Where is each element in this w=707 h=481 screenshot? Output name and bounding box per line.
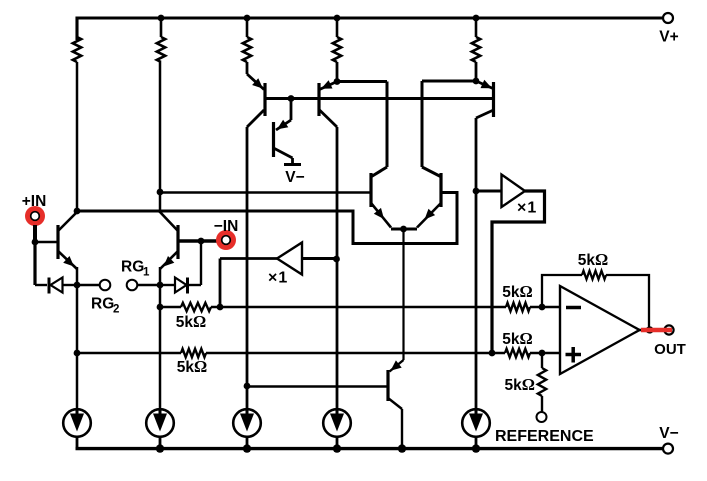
svg-text:2: 2 — [113, 304, 119, 316]
svg-text:×1: ×1 — [517, 200, 537, 217]
svg-text:OUT: OUT — [654, 341, 686, 358]
svg-text:V−: V− — [659, 425, 678, 442]
svg-text:V+: V+ — [659, 29, 678, 46]
svg-text:1: 1 — [143, 267, 150, 279]
svg-text:RG: RG — [91, 296, 114, 313]
svg-text:5kΩ: 5kΩ — [502, 282, 532, 301]
svg-text:5kΩ: 5kΩ — [177, 357, 207, 376]
svg-text:5kΩ: 5kΩ — [502, 329, 532, 348]
svg-text:5kΩ: 5kΩ — [505, 375, 535, 394]
svg-text:RG: RG — [121, 259, 144, 276]
svg-text:5kΩ: 5kΩ — [578, 250, 608, 269]
svg-text:−IN: −IN — [214, 218, 239, 235]
svg-text:×1: ×1 — [268, 270, 288, 287]
svg-text:5kΩ: 5kΩ — [176, 312, 206, 331]
svg-text:REFERENCE: REFERENCE — [495, 428, 594, 445]
svg-text:+IN: +IN — [22, 193, 47, 210]
svg-text:V−: V− — [285, 169, 304, 186]
